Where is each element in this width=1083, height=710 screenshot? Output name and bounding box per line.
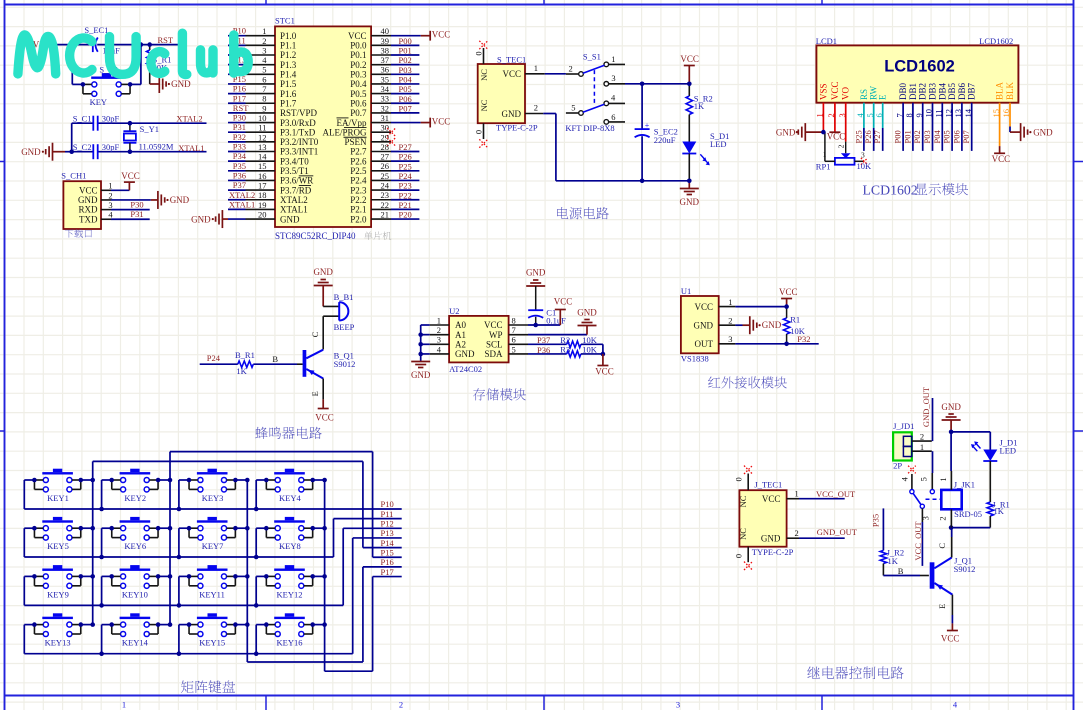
svg-text:XTAL2: XTAL2 [176, 114, 202, 124]
svg-text:GND: GND [21, 147, 41, 157]
svg-text:DB7: DB7 [967, 82, 977, 100]
svg-text:17: 17 [258, 181, 267, 191]
svg-text:P05: P05 [942, 130, 952, 143]
svg-text:P1.3: P1.3 [280, 60, 297, 70]
svg-text:EA/Vpp: EA/Vpp [337, 118, 367, 128]
svg-text:P13: P13 [381, 528, 394, 538]
svg-text:8: 8 [512, 315, 516, 325]
svg-text:DB4: DB4 [937, 82, 947, 100]
svg-text:P2.0: P2.0 [350, 214, 367, 224]
svg-text:P3.2/INT0: P3.2/INT0 [280, 137, 319, 147]
svg-text:PSEN: PSEN [344, 137, 367, 147]
svg-text:E: E [878, 94, 888, 100]
svg-text:37: 37 [381, 55, 390, 65]
svg-text:P15: P15 [381, 547, 394, 557]
svg-text:R1: R1 [790, 314, 800, 324]
svg-text:KEY9: KEY9 [47, 589, 69, 599]
svg-text:P06: P06 [399, 94, 412, 104]
svg-text:P0.6: P0.6 [350, 98, 367, 108]
svg-text:S_C1: S_C1 [73, 113, 92, 123]
svg-text:P35: P35 [871, 514, 881, 527]
svg-text:2: 2 [937, 516, 947, 520]
svg-text:GND: GND [761, 533, 781, 543]
svg-text:LCD1602: LCD1602 [863, 182, 918, 197]
svg-text:B: B [898, 566, 904, 576]
svg-text:30pF: 30pF [102, 113, 120, 123]
svg-text:4: 4 [262, 55, 267, 65]
svg-text:P26: P26 [399, 152, 412, 162]
svg-text:LED: LED [710, 139, 727, 149]
svg-text:9: 9 [262, 103, 266, 113]
svg-text:15: 15 [258, 161, 267, 171]
svg-text:STC89C52RC_DIP40: STC89C52RC_DIP40 [275, 231, 356, 241]
svg-text:P2.4: P2.4 [350, 176, 367, 186]
svg-text:KEY13: KEY13 [45, 638, 71, 648]
svg-text:DB0: DB0 [898, 82, 908, 100]
svg-text:A2: A2 [455, 340, 466, 350]
svg-text:P1.0: P1.0 [280, 31, 297, 41]
svg-text:3: 3 [921, 516, 931, 520]
svg-text:P00: P00 [893, 130, 903, 143]
svg-text:S_TEC1: S_TEC1 [497, 55, 526, 65]
svg-text:A1: A1 [455, 330, 466, 340]
svg-text:2: 2 [728, 315, 732, 325]
svg-text:P1.6: P1.6 [280, 89, 297, 99]
svg-text:6: 6 [262, 74, 266, 84]
svg-text:P17: P17 [233, 93, 246, 103]
svg-text:TYPE-C-2P: TYPE-C-2P [752, 547, 794, 557]
svg-text:P24: P24 [399, 171, 413, 181]
svg-text:VCC: VCC [595, 367, 614, 377]
svg-text:LCD1602: LCD1602 [979, 36, 1013, 46]
svg-text:SDA: SDA [484, 349, 503, 359]
svg-text:7: 7 [512, 325, 516, 335]
svg-text:GND: GND [1033, 128, 1053, 138]
svg-text:P27: P27 [399, 142, 412, 152]
svg-text:30: 30 [381, 123, 390, 133]
svg-text:14: 14 [258, 152, 267, 162]
svg-text:1K: 1K [236, 366, 247, 376]
svg-text:29: 29 [381, 132, 390, 142]
svg-text:KEY10: KEY10 [122, 589, 148, 599]
svg-text:P16: P16 [381, 557, 394, 567]
svg-text:GND: GND [577, 307, 597, 317]
svg-text:XTAL1: XTAL1 [280, 205, 308, 215]
svg-text:3: 3 [262, 45, 266, 55]
svg-text:P36: P36 [537, 345, 550, 355]
svg-text:U1: U1 [681, 286, 691, 296]
svg-text:2: 2 [837, 144, 846, 148]
svg-text:30pF: 30pF [102, 142, 120, 152]
svg-text:VCC: VCC [779, 287, 798, 297]
svg-text:0: 0 [474, 51, 484, 55]
svg-text:220uF: 220uF [654, 135, 676, 145]
svg-text:34: 34 [381, 84, 390, 94]
svg-text:GND: GND [313, 267, 333, 277]
svg-text:P10: P10 [381, 499, 394, 509]
svg-text:39: 39 [381, 36, 390, 46]
svg-text:2: 2 [569, 63, 573, 73]
svg-text:2: 2 [262, 36, 266, 46]
svg-text:22: 22 [381, 200, 390, 210]
svg-text:GND_OUT: GND_OUT [817, 527, 858, 537]
svg-text:GND: GND [526, 268, 546, 278]
svg-text:P05: P05 [399, 84, 412, 94]
svg-text:RST/VPD: RST/VPD [280, 108, 318, 118]
svg-text:1: 1 [938, 477, 948, 481]
svg-text:P02: P02 [399, 55, 412, 65]
svg-text:2: 2 [920, 432, 924, 442]
svg-text:20: 20 [258, 209, 267, 219]
svg-text:1K: 1K [888, 556, 899, 566]
svg-text:SCL: SCL [486, 340, 503, 350]
svg-text:8: 8 [262, 94, 266, 104]
svg-text:VCC: VCC [348, 31, 367, 41]
svg-text:32: 32 [381, 103, 390, 113]
svg-text:2P: 2P [893, 461, 902, 471]
svg-text:GND_OUT: GND_OUT [921, 386, 931, 427]
svg-text:P1.1: P1.1 [280, 41, 296, 51]
svg-text:VSS: VSS [818, 83, 828, 100]
svg-text:4: 4 [953, 700, 958, 710]
svg-text:VCC: VCC [502, 69, 521, 79]
svg-text:VCC: VCC [762, 494, 781, 504]
svg-text:S_C2: S_C2 [73, 142, 92, 152]
svg-text:KEY4: KEY4 [279, 493, 301, 503]
svg-text:P03: P03 [922, 130, 932, 143]
svg-text:13: 13 [258, 142, 267, 152]
svg-text:AT24C02: AT24C02 [449, 364, 482, 374]
svg-text:P31: P31 [130, 209, 143, 219]
svg-text:B_B1: B_B1 [334, 292, 354, 302]
svg-text:5: 5 [571, 103, 575, 113]
svg-text:10K: 10K [857, 161, 873, 171]
svg-text:P17: P17 [381, 567, 394, 577]
svg-text:0: 0 [474, 130, 484, 134]
svg-text:C: C [937, 543, 947, 549]
svg-text:KEY8: KEY8 [279, 541, 301, 551]
svg-text:1: 1 [108, 181, 112, 191]
svg-text:4: 4 [611, 92, 616, 102]
svg-text:P31: P31 [233, 122, 246, 132]
svg-text:P2.6: P2.6 [350, 156, 367, 166]
svg-text:1: 1 [920, 442, 924, 452]
svg-text:ALE/PROG: ALE/PROG [322, 127, 367, 137]
svg-text:P33: P33 [233, 142, 246, 152]
svg-text:4: 4 [108, 210, 113, 220]
svg-text:P14: P14 [381, 538, 395, 548]
svg-text:P22: P22 [399, 190, 412, 200]
svg-text:P0.4: P0.4 [350, 79, 367, 89]
svg-text:1K: 1K [694, 101, 705, 111]
svg-text:P11: P11 [381, 509, 394, 519]
svg-text:P04: P04 [399, 74, 413, 84]
svg-text:P0.0: P0.0 [350, 41, 367, 51]
svg-text:19: 19 [258, 200, 267, 210]
svg-text:12: 12 [258, 132, 267, 142]
svg-text:6: 6 [611, 112, 615, 122]
svg-text:KEY3: KEY3 [202, 493, 224, 503]
svg-text:P0.2: P0.2 [350, 60, 366, 70]
svg-text:1: 1 [795, 488, 799, 498]
svg-text:LED: LED [1000, 446, 1017, 456]
svg-text:P24: P24 [207, 353, 221, 363]
svg-text:P01: P01 [399, 46, 412, 56]
svg-text:NC: NC [738, 495, 748, 507]
svg-text:P00: P00 [399, 36, 412, 46]
svg-text:GND: GND [280, 214, 300, 224]
svg-text:KEY: KEY [90, 97, 107, 107]
svg-text:10: 10 [258, 113, 267, 123]
svg-text:KEY14: KEY14 [122, 638, 149, 648]
svg-text:KEY2: KEY2 [124, 493, 146, 503]
svg-text:B: B [272, 354, 278, 364]
svg-text:28: 28 [381, 142, 390, 152]
svg-text:GND: GND [502, 109, 522, 119]
svg-text:KFT DIP-8X8: KFT DIP-8X8 [565, 123, 614, 133]
svg-text:25: 25 [381, 171, 390, 181]
svg-text:26: 26 [381, 161, 390, 171]
svg-text:KEY15: KEY15 [199, 638, 225, 648]
svg-text:C: C [310, 331, 320, 337]
svg-text:STC1: STC1 [275, 16, 295, 26]
svg-text:P04: P04 [932, 130, 942, 144]
svg-text:7: 7 [262, 84, 266, 94]
svg-text:KEY16: KEY16 [277, 638, 303, 648]
svg-text:VCC: VCC [79, 185, 98, 195]
svg-text:VCC: VCC [830, 81, 840, 100]
svg-text:5: 5 [512, 344, 516, 354]
svg-text:P25: P25 [853, 130, 863, 143]
svg-text:P1.4: P1.4 [280, 70, 297, 80]
svg-text:2: 2 [534, 102, 538, 112]
svg-text:VCC_OUT: VCC_OUT [913, 521, 923, 561]
svg-text:J_JK1: J_JK1 [954, 480, 975, 490]
svg-text:P37: P37 [233, 180, 246, 190]
svg-text:J_JD1: J_JD1 [893, 421, 914, 431]
svg-text:35: 35 [381, 74, 390, 84]
svg-text:P0.7: P0.7 [350, 108, 367, 118]
svg-text:1: 1 [262, 26, 266, 36]
svg-text:3: 3 [611, 73, 615, 83]
svg-text:GND: GND [170, 195, 190, 205]
svg-text:VCC: VCC [432, 30, 451, 40]
svg-text:KEY11: KEY11 [199, 589, 225, 599]
svg-text:11.0592M: 11.0592M [139, 142, 174, 152]
svg-text:P30: P30 [233, 113, 246, 123]
svg-text:E: E [310, 391, 320, 396]
svg-text:P3.5/T1: P3.5/T1 [280, 166, 309, 176]
svg-text:KEY1: KEY1 [47, 493, 69, 503]
svg-text:RST: RST [158, 35, 174, 45]
svg-text:3: 3 [437, 335, 441, 345]
svg-text:P2.7: P2.7 [350, 147, 367, 157]
svg-text:VS1838: VS1838 [681, 353, 709, 363]
svg-text:10K: 10K [582, 345, 598, 355]
svg-text:P1.7: P1.7 [280, 98, 297, 108]
svg-text:VCC: VCC [554, 297, 573, 307]
svg-text:E: E [937, 604, 947, 609]
svg-text:VCC: VCC [432, 116, 451, 126]
svg-text:GND: GND [776, 128, 796, 138]
svg-text:40: 40 [381, 26, 390, 36]
svg-text:KEY7: KEY7 [202, 541, 224, 551]
svg-text:KEY5: KEY5 [47, 541, 69, 551]
svg-text:P25: P25 [399, 161, 412, 171]
svg-text:BEEP: BEEP [334, 322, 355, 332]
svg-text:0: 0 [734, 477, 744, 481]
svg-text:P27: P27 [872, 130, 882, 143]
svg-text:RXD: RXD [78, 205, 98, 215]
svg-text:P32: P32 [797, 334, 810, 344]
svg-text:GND: GND [694, 320, 714, 330]
svg-text:38: 38 [381, 45, 390, 55]
svg-text:6: 6 [512, 335, 516, 345]
svg-text:P07: P07 [961, 130, 971, 143]
svg-text:P36: P36 [233, 170, 246, 180]
svg-text:S9012: S9012 [954, 564, 976, 574]
svg-text:18: 18 [258, 190, 267, 200]
svg-text:J_TEC1: J_TEC1 [754, 479, 782, 489]
svg-text:GND: GND [762, 320, 782, 330]
svg-text:TXD: TXD [79, 214, 98, 224]
svg-text:GND: GND [680, 197, 700, 207]
svg-text:GND: GND [941, 402, 961, 412]
svg-text:S_EC1: S_EC1 [84, 25, 108, 35]
svg-text:RST: RST [233, 103, 249, 113]
svg-text:XTAL2: XTAL2 [280, 195, 308, 205]
svg-text:DB2: DB2 [918, 83, 928, 100]
svg-text:KEY12: KEY12 [277, 589, 303, 599]
svg-text:P23: P23 [399, 181, 412, 191]
svg-text:P2.5: P2.5 [350, 166, 367, 176]
svg-text:P21: P21 [399, 200, 412, 210]
svg-text:1: 1 [728, 297, 732, 307]
svg-text:10K: 10K [582, 335, 598, 345]
svg-text:GND: GND [171, 79, 191, 89]
svg-text:SRD-05: SRD-05 [954, 509, 982, 519]
svg-text:31: 31 [381, 113, 390, 123]
svg-text:P3.0/RxD: P3.0/RxD [280, 118, 316, 128]
svg-text:LCD1: LCD1 [816, 36, 837, 46]
svg-text:NC: NC [479, 99, 489, 111]
svg-text:4: 4 [437, 344, 442, 354]
svg-text:DB3: DB3 [928, 82, 938, 100]
svg-text:S9012: S9012 [334, 359, 356, 369]
svg-text:+: + [645, 121, 650, 130]
svg-text:B_R1: B_R1 [235, 350, 255, 360]
svg-text:P03: P03 [399, 65, 412, 75]
svg-text:NC: NC [479, 69, 489, 81]
svg-text:11: 11 [258, 123, 266, 133]
svg-text:VCC: VCC [121, 171, 140, 181]
svg-text:2: 2 [399, 700, 403, 710]
svg-text:27: 27 [381, 152, 390, 162]
svg-text:KEY6: KEY6 [124, 541, 146, 551]
svg-text:P1.2: P1.2 [280, 50, 296, 60]
svg-text:VCC: VCC [315, 412, 334, 422]
svg-text:DB5: DB5 [947, 82, 957, 100]
svg-text:P3.3/INT1: P3.3/INT1 [280, 147, 318, 157]
svg-text:R2: R2 [560, 335, 570, 345]
svg-text:P34: P34 [233, 151, 247, 161]
svg-text:RS: RS [859, 89, 869, 100]
svg-text:P0.3: P0.3 [350, 70, 367, 80]
svg-text:P0.1: P0.1 [350, 50, 366, 60]
svg-text:P32: P32 [233, 132, 246, 142]
svg-text:4: 4 [900, 476, 910, 481]
svg-text:U2: U2 [449, 306, 459, 316]
svg-text:OUT: OUT [695, 339, 714, 349]
svg-text:S_CH1: S_CH1 [61, 171, 86, 181]
svg-text:23: 23 [381, 190, 390, 200]
svg-text:P1.5: P1.5 [280, 79, 297, 89]
svg-text:VO: VO [841, 87, 851, 100]
svg-text:1: 1 [534, 63, 538, 73]
svg-text:3: 3 [861, 150, 865, 159]
svg-text:P3.7/RD: P3.7/RD [280, 185, 312, 195]
svg-text:3: 3 [676, 700, 680, 710]
svg-text:3: 3 [728, 334, 732, 344]
svg-text:P20: P20 [399, 210, 412, 220]
svg-text:P01: P01 [902, 130, 912, 143]
svg-text:P35: P35 [233, 161, 246, 171]
svg-text:1: 1 [437, 315, 441, 325]
svg-text:33: 33 [381, 94, 390, 104]
svg-text:21: 21 [381, 209, 390, 219]
svg-text:GND: GND [455, 349, 475, 359]
svg-text:A0: A0 [455, 320, 466, 330]
svg-text:VCC: VCC [827, 132, 846, 142]
svg-text:2: 2 [108, 190, 112, 200]
svg-text:XTAL2: XTAL2 [229, 190, 255, 200]
svg-text:P06: P06 [951, 130, 961, 143]
svg-text:3: 3 [108, 200, 112, 210]
svg-text:P3.6/WR: P3.6/WR [280, 176, 313, 186]
svg-text:P2.2: P2.2 [350, 195, 366, 205]
svg-text:RP1: RP1 [816, 162, 831, 172]
svg-text:WP: WP [489, 330, 503, 340]
svg-text:1: 1 [823, 150, 827, 159]
svg-text:P2.3: P2.3 [350, 185, 367, 195]
svg-text:VCC: VCC [941, 633, 960, 643]
svg-text:BLA: BLA [995, 81, 1005, 100]
svg-text:VCC: VCC [992, 154, 1011, 164]
svg-text:2: 2 [437, 325, 441, 335]
svg-text:P02: P02 [912, 130, 922, 143]
svg-text:P2.1: P2.1 [350, 205, 366, 215]
svg-text:P12: P12 [381, 519, 394, 529]
svg-text:16: 16 [258, 171, 267, 181]
svg-text:VCC: VCC [680, 54, 699, 64]
svg-text:0: 0 [734, 554, 744, 558]
svg-text:DB1: DB1 [908, 83, 918, 100]
svg-text:DB6: DB6 [957, 82, 967, 100]
svg-text:VCC: VCC [694, 302, 713, 312]
svg-text:1K: 1K [994, 506, 1005, 516]
svg-text:2: 2 [795, 528, 799, 538]
svg-text:5: 5 [919, 477, 929, 481]
svg-text:0.1uF: 0.1uF [546, 316, 566, 326]
svg-text:S_S1: S_S1 [583, 52, 601, 62]
svg-text:GND: GND [78, 195, 98, 205]
svg-text:VCC: VCC [484, 320, 503, 330]
svg-text:P16: P16 [233, 84, 246, 94]
svg-text:BLK: BLK [1005, 81, 1015, 100]
svg-text:VCC_OUT: VCC_OUT [816, 489, 856, 499]
svg-text:GND: GND [191, 214, 211, 224]
svg-text:XTAL1: XTAL1 [178, 143, 204, 153]
